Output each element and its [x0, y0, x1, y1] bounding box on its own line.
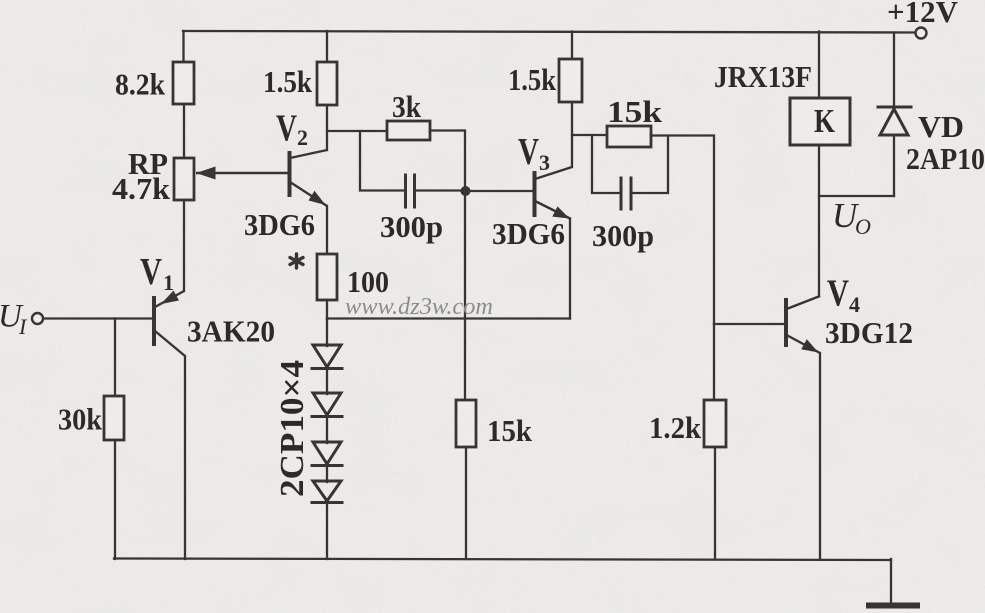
- wire V1 collector down: [184, 356, 186, 559]
- svg-text:2CP10×4: 2CP10×4: [274, 360, 311, 497]
- svg-text:V: V: [140, 251, 162, 293]
- wire VD bottom: [893, 135, 895, 196]
- wire top +12V rail: [183, 31, 915, 33]
- transistor V2 3DG6: [196, 150, 327, 206]
- svg-text:3k: 3k: [392, 89, 422, 124]
- svg-text:K: K: [814, 103, 835, 140]
- resistor 30k: [104, 396, 124, 440]
- svg-text:www.dz3w.com: www.dz3w.com: [345, 294, 493, 320]
- wire 100 to node: [326, 300, 328, 319]
- diode VD 2AP10: [878, 106, 911, 109]
- wire relay drop: [818, 32, 820, 100]
- svg-text:+12V: +12V: [887, 0, 959, 29]
- wire V4 emitter to rail: [819, 353, 821, 559]
- diode D3 2CP10: [313, 442, 341, 464]
- svg-text:8.2k: 8.2k: [115, 67, 166, 102]
- svg-text:1: 1: [163, 270, 174, 295]
- svg-text:1.5k: 1.5k: [263, 64, 313, 99]
- wire node A to V3 base: [465, 190, 533, 192]
- wire diode chain top: [326, 319, 328, 347]
- wire cap to node A: [416, 189, 465, 191]
- svg-text:3: 3: [539, 150, 550, 175]
- resistor 15k vertical: [456, 400, 476, 447]
- asterisk mark: [290, 254, 303, 268]
- wire collector node to 15k: [572, 134, 608, 136]
- svg-text:3AK20: 3AK20: [187, 314, 275, 349]
- wire 300p second left branch: [592, 135, 619, 193]
- resistor 1.5k right: [559, 59, 582, 102]
- wire 15k right to V4 base drop: [651, 136, 714, 325]
- svg-text:V: V: [827, 273, 849, 315]
- transistor V4 3DG12: [786, 296, 820, 353]
- resistor 100: [317, 254, 337, 300]
- wire node A down to 15k: [464, 191, 466, 400]
- resistor 3k: [387, 121, 430, 140]
- wire V3 emitter down: [569, 219, 571, 319]
- svg-text:3DG12: 3DG12: [825, 315, 913, 350]
- wire U_I input: [43, 317, 152, 319]
- wire 1.2k to rail: [714, 447, 716, 559]
- transistor V3 3DG6: [535, 167, 573, 219]
- svg-text:3DG6: 3DG6: [492, 216, 565, 251]
- svg-text:JRX13F: JRX13F: [714, 59, 812, 94]
- svg-text:V: V: [276, 108, 297, 150]
- svg-text:300p: 300p: [592, 218, 654, 253]
- resistor 1.2k: [704, 400, 726, 447]
- svg-text:2AP10: 2AP10: [906, 141, 985, 176]
- ground: [890, 559, 892, 604]
- wire 30k branch: [114, 319, 116, 398]
- terminal +12V: [916, 28, 927, 39]
- diode D1 2CP10: [313, 345, 341, 367]
- wire 1.5k to V2 collector: [326, 105, 328, 150]
- relay K JRX13F: [790, 98, 850, 145]
- capacitor 300p second plates: [620, 178, 623, 209]
- wire 3k right to corner: [430, 131, 465, 187]
- capacitor 300p first plates: [404, 175, 407, 207]
- wire V4 base: [714, 323, 784, 325]
- diode D4 2CP10: [313, 481, 341, 501]
- wire K bottom to VD bottom: [819, 195, 894, 197]
- svg-text:15k: 15k: [487, 413, 533, 448]
- potentiometer RP 4.7k: [174, 158, 194, 200]
- svg-text:2: 2: [297, 125, 308, 150]
- resistor 8.2k: [173, 62, 194, 104]
- wire D4 to rail: [326, 503, 328, 559]
- wire K bottom to node U_O: [818, 145, 820, 296]
- wire VD top drop: [893, 33, 895, 110]
- wire 1.5k right drop: [571, 32, 573, 62]
- node A junction dot: [461, 186, 471, 196]
- resistor 1.5k left: [317, 62, 337, 105]
- wire emitter coupling: [327, 317, 570, 319]
- svg-text:15k: 15k: [607, 94, 663, 129]
- svg-text:O: O: [855, 214, 871, 239]
- diode D2 2CP10: [313, 393, 341, 415]
- wire RP to V1 emitter: [183, 200, 185, 291]
- svg-text:V: V: [518, 131, 539, 173]
- terminal U_I: [32, 313, 43, 324]
- svg-text:30k: 30k: [58, 402, 103, 437]
- svg-text:300p: 300p: [380, 209, 443, 244]
- svg-text:1.5k: 1.5k: [508, 62, 557, 97]
- wire 8.2k to RP: [183, 104, 185, 159]
- svg-text:1.2k: 1.2k: [649, 410, 702, 445]
- wire left chain top: [182, 31, 184, 63]
- wire 30k to rail: [114, 440, 116, 559]
- resistor 15k horizontal: [607, 126, 651, 147]
- wire 15k to rail: [465, 447, 467, 559]
- wire 1.5k left drop: [326, 31, 328, 63]
- wire collector node to 3k: [327, 130, 388, 132]
- wire V2 emitter to 100: [326, 206, 328, 255]
- transistor V1 3AK20: [154, 291, 185, 357]
- wire bottom rail: [114, 559, 891, 561]
- svg-text:VD: VD: [918, 109, 964, 144]
- svg-text:4.7k: 4.7k: [112, 171, 171, 206]
- wire 1.5k to V3 collector: [571, 102, 573, 167]
- svg-text:3DG6: 3DG6: [244, 207, 315, 242]
- wire 300p left branch: [360, 131, 404, 191]
- wire cap2 right branch: [632, 136, 668, 193]
- svg-text:4: 4: [849, 292, 860, 317]
- wire 1.2k drop: [713, 324, 715, 400]
